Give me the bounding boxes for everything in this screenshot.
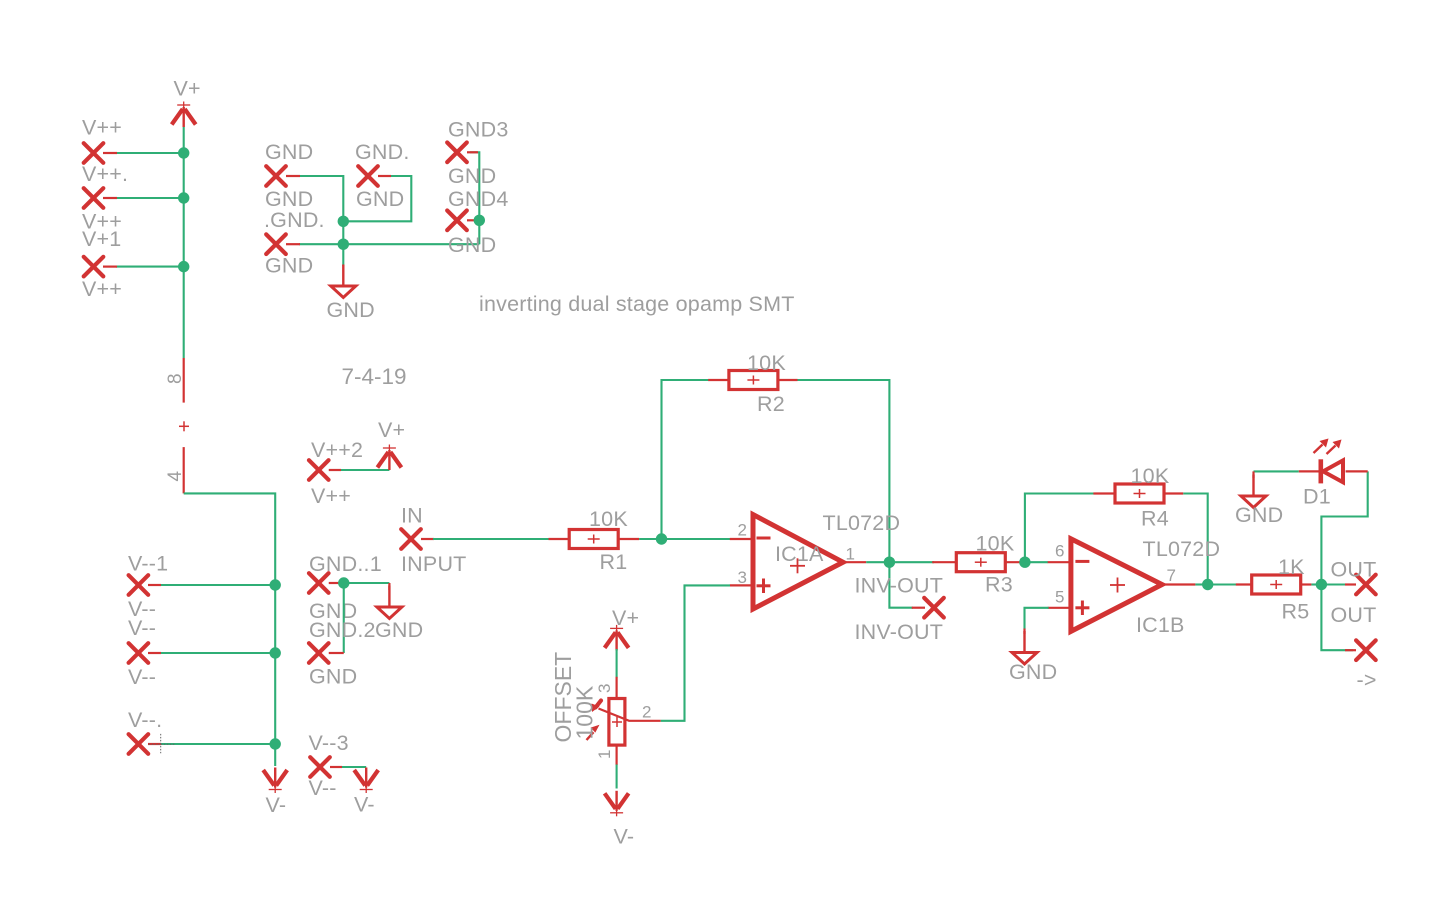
wire pot to V- (616, 765, 618, 789)
node junction inverting input (656, 533, 667, 544)
svg-text:V+: V+ (612, 606, 639, 630)
port X V++. (84, 188, 104, 208)
op-amp IC1B pin 7 (1162, 583, 1195, 585)
origin cross IC1B (1110, 584, 1125, 586)
wire wiper to pin3 (661, 585, 730, 720)
port X V-- 2 (129, 643, 149, 663)
svg-text:GND: GND (327, 298, 375, 322)
svg-text:GND: GND (265, 254, 313, 278)
wire V++2 stub (339, 469, 389, 471)
supply symbol V+ offset (605, 625, 629, 651)
wire INV-OUT branch (889, 562, 913, 608)
origin cross IC1P (179, 425, 189, 427)
svg-text:GND.2: GND.2 (309, 618, 376, 642)
svg-text:10K: 10K (1131, 464, 1170, 488)
svg-text:IC1B: IC1B (1136, 613, 1185, 637)
svg-text:3: 3 (595, 684, 614, 693)
wire V-- stub 3 (160, 743, 275, 745)
wire V+ rail vertical (183, 127, 185, 358)
pin stub (286, 243, 300, 245)
wire R4 to output node (1183, 494, 1207, 585)
LED emission arrow 2 (1327, 446, 1336, 455)
resistor R1 lead left (549, 538, 570, 540)
wire V++ stub 3 (116, 266, 184, 268)
svg-text:R1: R1 (600, 550, 628, 574)
svg-text:TL072D: TL072D (823, 511, 901, 535)
svg-text:V--3: V--3 (309, 731, 349, 755)
port X GND. B (358, 166, 378, 186)
svg-text:GND: GND (448, 164, 496, 188)
wire V++ stub 1 (116, 152, 184, 154)
wire node to pin2 (662, 538, 731, 540)
wire R5 to out node (1311, 583, 1321, 585)
svg-text:V++: V++ (82, 116, 122, 140)
wire LED to ground (1254, 470, 1299, 472)
wire feedback R4 up (1025, 494, 1094, 563)
node junction pin6 (1019, 557, 1030, 568)
svg-text:inverting dual stage opamp SMT: inverting dual stage opamp SMT (479, 292, 795, 316)
wire V+ to pot (616, 649, 618, 678)
port X GND C (266, 234, 286, 254)
svg-text:GND..1: GND..1 (309, 552, 382, 576)
node junction (338, 239, 349, 250)
pin stub (378, 175, 391, 177)
svg-text:V--.: V--. (128, 708, 162, 732)
svg-text:V++2: V++2 (311, 438, 363, 462)
svg-text:100K: 100K (572, 685, 598, 739)
resistor R2 (729, 371, 778, 390)
svg-text:OUT: OUT (1331, 603, 1377, 627)
ground symbol (388, 583, 390, 590)
node junction (270, 579, 281, 590)
node junction (178, 192, 189, 203)
svg-text:V--1: V--1 (128, 552, 168, 576)
svg-text:V+: V+ (378, 418, 405, 442)
pin stub (421, 538, 434, 540)
port X GND3 (447, 143, 467, 163)
trimpot R6 pin 3 (615, 677, 617, 699)
svg-text:R2: R2 (757, 392, 785, 416)
svg-text:V++: V++ (82, 277, 122, 301)
wire R1 to node (639, 538, 661, 540)
trimpot wiper arrowhead (596, 701, 602, 708)
supply symbol V- offset (605, 791, 629, 817)
svg-text:R3: R3 (985, 573, 1013, 597)
pin stub (329, 652, 344, 654)
node junction (178, 147, 189, 158)
resistor R2 lead left (708, 379, 730, 381)
op-amp IC1A pin 1 (843, 561, 866, 563)
wire node to lower OUT port (1321, 585, 1353, 651)
svg-text:1: 1 (846, 545, 855, 564)
resistor R4 lead right (1164, 492, 1183, 494)
svg-text:V++.: V++. (82, 162, 128, 186)
ground symbol pin5 (1023, 629, 1025, 635)
wire GND stub A (299, 176, 343, 221)
svg-text:GND: GND (265, 140, 313, 164)
resistor R1 lead right (618, 538, 639, 540)
LED D1 cathode bar (1319, 459, 1324, 483)
port X GND.2 (309, 643, 329, 663)
port X INV-OUT (924, 598, 944, 618)
svg-text:V--: V-- (128, 665, 156, 689)
pin stub (467, 151, 478, 153)
LED D1 body (1323, 460, 1343, 482)
resistor R2 lead right (778, 379, 798, 381)
svg-text:GND: GND (1235, 503, 1283, 527)
svg-text:V+: V+ (174, 77, 201, 101)
wire pin4 to V- rail (184, 493, 276, 766)
pin stub (103, 152, 117, 154)
svg-text:R4: R4 (1141, 507, 1169, 531)
ground symbol D1 (1252, 471, 1254, 478)
plus marker pin5 (1075, 606, 1089, 609)
svg-text:OUT: OUT (1331, 558, 1377, 582)
wire node to R5 (1208, 583, 1237, 585)
origin cross IC1A (790, 565, 805, 567)
svg-text:INV-OUT: INV-OUT (855, 620, 944, 644)
wire V++ stub 2 (116, 197, 184, 199)
trimpot adjust arrow (587, 732, 594, 740)
resistor R5 lead right (1301, 583, 1312, 585)
wire node to R3 (889, 561, 934, 563)
wire GND3 column (470, 152, 479, 244)
port X V++ 3 (84, 257, 104, 277)
svg-text:GND.: GND. (355, 140, 410, 164)
port X V--3 (310, 757, 330, 777)
resistor R5 (1252, 575, 1301, 594)
port X GND4 (447, 211, 467, 231)
svg-text:V--: V-- (128, 616, 156, 640)
port X GND A (266, 166, 286, 186)
node junction INV-OUT (884, 557, 895, 568)
svg-text:INV-OUT: INV-OUT (855, 574, 944, 598)
resistor R1 (569, 530, 618, 549)
svg-text:3: 3 (738, 568, 747, 587)
svg-text:R5: R5 (1282, 600, 1310, 624)
op-amp IC1A body (753, 515, 843, 610)
svg-text:GND: GND (1009, 660, 1057, 684)
svg-text:2: 2 (642, 703, 651, 722)
wire V--3 stub (340, 766, 366, 768)
svg-text:10K: 10K (747, 351, 786, 375)
origin cross pot (612, 721, 622, 723)
wire pin5 to ground (1025, 608, 1049, 630)
node junction pin7 (1202, 579, 1213, 590)
port X V++2 (309, 460, 329, 480)
supply symbol V- main (263, 768, 287, 794)
op-amp IC1P pin 8 (183, 358, 185, 403)
wire V-- stub 1 (160, 584, 275, 586)
wire node to pin6 (1025, 561, 1048, 563)
supply symbol V- small (354, 768, 378, 794)
pin stub (330, 766, 342, 768)
svg-text:.GND.: .GND. (264, 208, 325, 232)
svg-text:GND: GND (309, 665, 357, 689)
node junction (270, 738, 281, 749)
pin stub (1345, 583, 1356, 585)
svg-text:GND: GND (375, 618, 423, 642)
svg-text:GND: GND (448, 233, 496, 257)
op-amp IC1B pin 5 (1048, 607, 1071, 609)
svg-text:V--: V-- (309, 776, 337, 800)
svg-text:V-: V- (614, 825, 635, 849)
cursor crosshair (149, 743, 175, 745)
resistor R3 lead right (1005, 561, 1022, 563)
svg-text:1: 1 (595, 750, 614, 759)
pin stub (148, 743, 161, 745)
pin stub (1345, 649, 1356, 651)
wire OUT node to LED (1321, 471, 1367, 584)
port X IN (401, 529, 421, 549)
svg-text:8: 8 (165, 373, 186, 384)
svg-text:1K: 1K (1278, 555, 1305, 579)
LED D1 lead right (1346, 470, 1368, 472)
node junction (270, 647, 281, 658)
pin stub (148, 652, 161, 654)
supply symbol V+ main (172, 102, 196, 128)
wire GND..1 stub (337, 582, 389, 584)
wire node to OUT port (1321, 583, 1353, 585)
svg-text:6: 6 (1055, 542, 1064, 561)
minus marker pin6 (1075, 560, 1089, 563)
pin stub (329, 469, 341, 471)
pin stub (286, 175, 300, 177)
pin stub (912, 607, 925, 609)
trimpot R6 pin 1 (615, 745, 617, 765)
wire IN to R1 (433, 538, 549, 540)
wire pin7 to node (1195, 583, 1207, 585)
op-amp IC1B body (1071, 539, 1162, 632)
pin stub (467, 219, 479, 221)
svg-text:GND: GND (356, 187, 404, 211)
port X V--1 (129, 575, 149, 595)
wire V-- stub 2 (160, 652, 275, 654)
op-amp IC1A pin 3 (730, 584, 753, 586)
svg-text:GND3: GND3 (448, 118, 509, 142)
op-amp IC1A pin 2 (730, 538, 753, 540)
node junction (338, 577, 349, 588)
svg-text:GND4: GND4 (448, 187, 509, 211)
port X V--. 3 (129, 734, 149, 754)
LED emission arrow 1 (1314, 445, 1323, 454)
svg-text:10K: 10K (589, 507, 628, 531)
svg-text:7: 7 (1167, 566, 1176, 585)
svg-text:V-: V- (354, 793, 375, 817)
resistor R5 lead left (1236, 583, 1253, 585)
supply symbol V+ small (377, 445, 401, 471)
svg-text:->: -> (1357, 668, 1377, 692)
LED D1 lead left (1299, 470, 1319, 472)
svg-text:10K: 10K (976, 532, 1015, 556)
resistor R4 lead left (1093, 492, 1115, 494)
svg-text:IN: IN (401, 504, 423, 528)
wire to ground symbol (342, 221, 344, 266)
svg-text:7-4-19: 7-4-19 (342, 364, 407, 389)
svg-text:INPUT: INPUT (401, 552, 467, 576)
trimpot wiper arm (599, 709, 661, 721)
wire GND stub C horizontal (299, 243, 479, 245)
minus marker pin2 (757, 537, 771, 540)
svg-text:V-: V- (266, 793, 287, 817)
svg-text:V+1: V+1 (82, 227, 121, 251)
node junction OUT (1316, 579, 1327, 590)
svg-text:5: 5 (1055, 588, 1064, 607)
svg-text:TL072D: TL072D (1143, 537, 1221, 561)
port X lower OUT (1356, 640, 1376, 660)
resistor R3 (956, 553, 1005, 572)
wire pin1 to node (866, 561, 889, 563)
trimpot R6 body (609, 699, 625, 746)
wire GND stub B loop (343, 176, 411, 221)
op-amp IC1B pin 6 (1048, 561, 1071, 563)
port X OUT (1356, 575, 1376, 595)
node junction (338, 216, 349, 227)
svg-text:IC1A: IC1A (775, 542, 824, 566)
svg-text:2: 2 (738, 521, 747, 540)
pin stub (329, 582, 339, 584)
node junction (474, 215, 485, 226)
ground symbol GND (331, 265, 356, 298)
wire feedback up (662, 380, 709, 539)
resistor R3 lead left (932, 561, 957, 563)
op-amp IC1P pin 4 (183, 447, 185, 493)
port X GND..1 (309, 573, 329, 593)
port X V++ 1 (84, 143, 104, 163)
pin stub (103, 197, 117, 199)
wire junction to GND.2 (343, 583, 345, 653)
svg-text:4: 4 (165, 471, 186, 482)
resistor R4 (1115, 484, 1164, 503)
node junction (178, 261, 189, 272)
wire R2 to output node (798, 380, 890, 562)
svg-text:D1: D1 (1303, 485, 1331, 509)
pin stub (148, 584, 161, 586)
plus marker pin3 (757, 584, 771, 587)
pin stub (103, 266, 117, 268)
svg-text:V++: V++ (311, 484, 351, 508)
